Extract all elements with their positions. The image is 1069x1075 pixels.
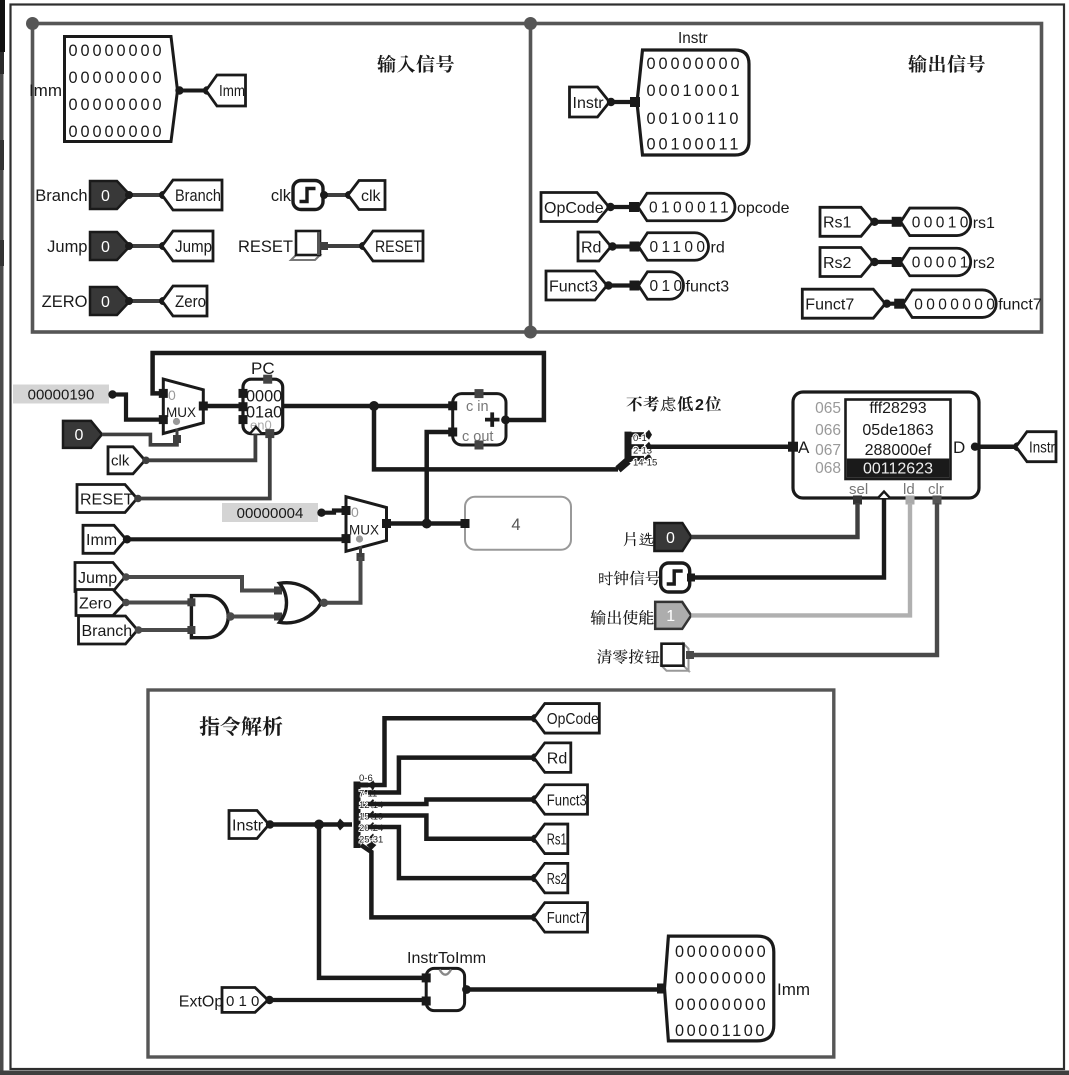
svg-text:068: 068 — [815, 460, 841, 477]
svg-text:c in: c in — [466, 399, 489, 415]
svg-text:OpCode: OpCode — [544, 200, 604, 217]
svg-text:Instr: Instr — [1029, 439, 1056, 456]
svg-text:00000000: 00000000 — [69, 42, 165, 60]
svg-text:Zero: Zero — [175, 293, 206, 311]
svg-text:0: 0 — [101, 294, 110, 311]
svg-text:ld: ld — [903, 481, 915, 498]
svg-text:00010001: 00010001 — [647, 82, 743, 100]
svg-text:0 1 0: 0 1 0 — [226, 993, 259, 1010]
svg-text:Branch: Branch — [82, 623, 133, 640]
svg-text:00001: 00001 — [912, 255, 972, 272]
svg-text:A: A — [798, 438, 810, 457]
svg-text:rd: rd — [711, 240, 725, 257]
svg-text:MUX: MUX — [349, 523, 379, 538]
svg-text:00000190: 00000190 — [28, 387, 95, 404]
svg-text:D: D — [953, 438, 965, 457]
svg-text:fff28293: fff28293 — [869, 400, 926, 417]
svg-text:00000000: 00000000 — [675, 943, 768, 961]
svg-text:sel: sel — [849, 481, 868, 498]
svg-text:Instr: Instr — [678, 30, 708, 47]
svg-text:Jump: Jump — [175, 238, 212, 256]
svg-text:066: 066 — [815, 422, 841, 439]
svg-text:Imm: Imm — [219, 83, 245, 100]
svg-text:ExtOp: ExtOp — [179, 994, 224, 1011]
svg-text:065: 065 — [815, 400, 841, 417]
svg-text:14-15: 14-15 — [633, 458, 657, 469]
svg-text:Rs1: Rs1 — [823, 215, 852, 232]
svg-text:clk: clk — [111, 453, 130, 470]
svg-text:00100110: 00100110 — [647, 110, 742, 128]
svg-text:Funct7: Funct7 — [547, 910, 587, 927]
svg-text:RESET: RESET — [80, 491, 134, 508]
svg-text:RESET: RESET — [375, 238, 422, 256]
svg-text:0-1: 0-1 — [633, 433, 647, 444]
svg-text:2: 2 — [695, 397, 704, 414]
svg-text:0: 0 — [101, 239, 110, 256]
svg-text:Imm: Imm — [86, 532, 117, 549]
svg-text:0000000: 0000000 — [914, 296, 998, 313]
svg-text:InstrToImm: InstrToImm — [407, 950, 486, 967]
svg-text:0: 0 — [666, 530, 675, 547]
svg-text:Imm: Imm — [29, 81, 62, 100]
svg-text:00112623: 00112623 — [863, 461, 933, 478]
svg-text:0: 0 — [168, 387, 176, 403]
svg-text:00000000: 00000000 — [69, 123, 165, 141]
svg-text:Rs1: Rs1 — [547, 832, 567, 849]
svg-text:funct7: funct7 — [998, 297, 1042, 314]
svg-text:00000000: 00000000 — [69, 96, 165, 114]
svg-text:clr: clr — [928, 481, 944, 498]
svg-text:Funct7: Funct7 — [805, 296, 854, 313]
svg-text:067: 067 — [815, 442, 841, 459]
svg-text:Branch: Branch — [175, 187, 221, 205]
svg-text:288000ef: 288000ef — [865, 442, 932, 459]
svg-text:RESET: RESET — [238, 238, 293, 256]
svg-text:0-6: 0-6 — [359, 773, 373, 784]
svg-text:00010: 00010 — [912, 214, 972, 231]
svg-text:0: 0 — [351, 504, 359, 520]
svg-text:00000000: 00000000 — [69, 69, 165, 87]
svg-text:ZERO: ZERO — [42, 293, 88, 311]
svg-text:05de1863: 05de1863 — [862, 422, 933, 439]
svg-text:01100: 01100 — [650, 239, 709, 256]
svg-text:00000004: 00000004 — [237, 505, 304, 522]
svg-text:0100011: 0100011 — [649, 200, 732, 217]
svg-text:010: 010 — [650, 278, 686, 295]
svg-text:OpCode: OpCode — [547, 711, 599, 728]
svg-text:Jump: Jump — [47, 238, 87, 256]
svg-text:Rd: Rd — [547, 750, 567, 767]
svg-text:clk: clk — [361, 188, 382, 205]
svg-text:Zero: Zero — [79, 595, 112, 612]
svg-text:Rs2: Rs2 — [823, 255, 852, 272]
svg-text:00000000: 00000000 — [647, 55, 743, 73]
svg-text:funct3: funct3 — [686, 279, 730, 296]
svg-text:00001100: 00001100 — [675, 1022, 767, 1040]
svg-text:00100011: 00100011 — [647, 136, 742, 154]
svg-text:Branch: Branch — [35, 187, 87, 205]
svg-text:4: 4 — [511, 516, 520, 534]
svg-text:MUX: MUX — [166, 405, 196, 420]
svg-text:00000000: 00000000 — [675, 996, 768, 1014]
svg-text:Funct3: Funct3 — [549, 278, 598, 295]
svg-text:Instr: Instr — [232, 817, 264, 834]
svg-text:rs2: rs2 — [973, 255, 995, 272]
svg-text:Rs2: Rs2 — [547, 871, 567, 888]
svg-text:rs1: rs1 — [973, 215, 995, 232]
svg-text:Funct3: Funct3 — [547, 792, 587, 809]
svg-text:opcode: opcode — [737, 200, 790, 217]
svg-text:Instr: Instr — [573, 95, 605, 112]
svg-text:Rd: Rd — [581, 239, 601, 256]
svg-text:0: 0 — [101, 188, 110, 205]
svg-text:0: 0 — [75, 427, 84, 444]
svg-text:1: 1 — [666, 608, 675, 625]
svg-text:Imm: Imm — [777, 980, 810, 999]
svg-text:clk: clk — [271, 187, 292, 205]
svg-text:00000000: 00000000 — [675, 970, 768, 988]
svg-text:Jump: Jump — [78, 570, 117, 587]
